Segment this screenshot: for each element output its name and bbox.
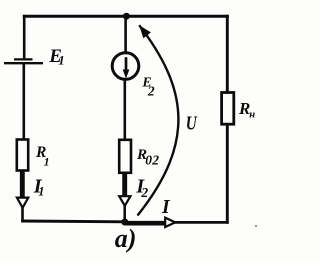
wire bottom right segment	[174, 221, 229, 224]
svg-text:2: 2	[147, 84, 155, 99]
arrowhead I (hollow, right)	[165, 218, 175, 227]
wire I1 arrow tail (bold)	[20, 171, 25, 198]
svg-text:1: 1	[38, 185, 44, 199]
source E2 arrow (down)	[125, 57, 128, 71]
battery E1 short plate	[14, 58, 33, 60]
svg-text:1: 1	[58, 52, 65, 67]
arrowhead I2 (hollow, down)	[119, 196, 130, 206]
wire right branch upper	[226, 15, 229, 94]
wire left branch middle	[22, 63, 25, 141]
battery E1 long plate	[4, 62, 43, 64]
speck	[255, 225, 257, 227]
wire bottom left segment	[21, 220, 125, 224]
wire right branch lower	[226, 123, 229, 224]
resistor R02	[119, 140, 131, 173]
resistor RN	[222, 93, 234, 125]
svg-text:н: н	[249, 109, 255, 120]
svg-text:02: 02	[145, 153, 159, 168]
source E2 circle	[112, 53, 139, 80]
svg-text:U: U	[186, 111, 198, 133]
wire left branch lower	[21, 207, 24, 222]
svg-text:1: 1	[44, 154, 50, 168]
wire middle branch upper	[124, 16, 127, 53]
svg-text:I: I	[161, 197, 171, 218]
wire bottom bold segment (junction to I arrow)	[125, 221, 166, 226]
wire top horizontal	[23, 15, 229, 18]
node bottom (junction dot)	[121, 219, 128, 226]
wire middle branch lower	[124, 79, 127, 142]
node top (junction dot)	[123, 13, 130, 20]
svg-text:2: 2	[140, 185, 148, 200]
wire left branch upper	[23, 15, 26, 60]
wire middle branch bottom	[123, 205, 126, 221]
resistor R1	[17, 140, 28, 171]
wire I2 arrow tail (bold)	[122, 173, 127, 197]
svg-text:а): а)	[115, 224, 137, 253]
arrowhead U (solid, up-left)	[139, 25, 151, 38]
arrowhead I1 (hollow, down)	[17, 198, 28, 208]
voltage arc U	[138, 25, 179, 215]
